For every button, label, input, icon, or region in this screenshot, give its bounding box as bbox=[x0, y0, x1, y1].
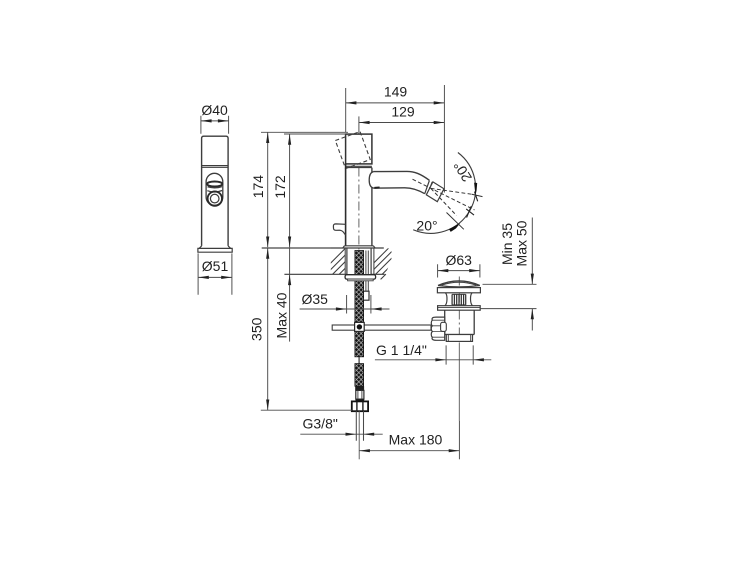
deck hatch right bbox=[362, 248, 415, 274]
drain cap (flat lens) bbox=[438, 281, 480, 286]
tick cross on axis bbox=[466, 206, 474, 217]
deck hole edges bbox=[345, 248, 374, 274]
deck bottom line bbox=[284, 273, 384, 275]
arc arrowhead upper bbox=[474, 183, 477, 195]
lever (dashed, rotated 20 deg) bbox=[335, 132, 370, 169]
ray A solid extension past arc bbox=[472, 194, 483, 196]
spout outline bbox=[369, 171, 429, 193]
extension line center (x=358.9) bbox=[358, 116, 360, 133]
extension line left (lever edge, x=345.7) bbox=[345, 88, 347, 133]
pull rod clip bbox=[362, 291, 369, 300]
drain lower flange bbox=[438, 306, 481, 311]
extension line right (aerator, x=444.4) bbox=[443, 85, 445, 193]
arc arrowhead lower bbox=[449, 223, 460, 232]
handle knob (front view) bbox=[206, 173, 223, 206]
svg-text:G3/8": G3/8" bbox=[303, 415, 338, 431]
dimension O35 bbox=[347, 295, 371, 314]
body seam lines (front view) bbox=[202, 166, 229, 168]
svg-text:Ø63: Ø63 bbox=[445, 252, 472, 268]
dimension 149 bbox=[346, 102, 445, 104]
dimension 129 bbox=[359, 122, 445, 124]
dimension O51 bbox=[198, 253, 232, 294]
dimension 174 bbox=[267, 132, 269, 247]
svg-text:174: 174 bbox=[250, 175, 266, 199]
dimension Min35/Max50 bbox=[531, 218, 533, 331]
svg-text:20°: 20° bbox=[450, 158, 475, 184]
extension: deck top (left) bbox=[262, 247, 331, 249]
base flare (front view) bbox=[199, 246, 231, 249]
lever (solid, side view) bbox=[346, 134, 372, 164]
svg-text:Max 180: Max 180 bbox=[389, 431, 443, 447]
svg-text:Max 40: Max 40 bbox=[274, 292, 290, 338]
knurled adjusting nut bbox=[431, 317, 444, 340]
aerator body bbox=[426, 182, 444, 202]
svg-text:Ø40: Ø40 bbox=[201, 102, 228, 118]
flexible hose braid (upper) bbox=[355, 251, 364, 323]
faucet body (front view) bbox=[202, 136, 229, 246]
G3/8 connection nut bbox=[352, 401, 368, 411]
aerator swivel rays (dashed) bbox=[413, 179, 475, 215]
svg-text:G 1 1/4": G 1 1/4" bbox=[376, 342, 427, 358]
G3/8 pipe bbox=[356, 411, 363, 441]
flexible hose braid (lower) bbox=[355, 364, 364, 387]
spout left end cap bbox=[369, 172, 373, 189]
body edges (side view) bbox=[345, 164, 347, 246]
extension: body top bbox=[284, 133, 346, 135]
dimension O63 bbox=[438, 264, 480, 277]
hose joint node bbox=[355, 322, 365, 331]
centerline continuation below nut bbox=[358, 411, 360, 459]
svg-text:Min 35: Min 35 bbox=[499, 223, 515, 265]
dimension 350 bbox=[267, 248, 269, 410]
deck hatch left bbox=[319, 248, 372, 274]
dimension G 1 1/4 bbox=[446, 345, 473, 364]
drain spool neck with knurl bbox=[445, 293, 473, 306]
solid ray segment through lower arc bbox=[447, 213, 464, 230]
spout base fillet mark bbox=[374, 187, 379, 189]
mounting nut under deck bbox=[345, 275, 376, 279]
dimension 172 bbox=[289, 134, 291, 247]
swivel angle arc bbox=[413, 153, 475, 234]
dimension Max 40 bbox=[289, 247, 291, 341]
svg-text:Max 50: Max 50 bbox=[514, 220, 530, 266]
hose end shank bbox=[356, 390, 364, 399]
svg-text:129: 129 bbox=[391, 103, 415, 119]
washer under nut bbox=[348, 279, 374, 281]
base plate (front view) bbox=[198, 248, 232, 252]
base flare (side view) bbox=[343, 246, 376, 249]
hose break line bbox=[358, 357, 360, 364]
pop-up pull rod (vertical pair) bbox=[366, 251, 368, 292]
drain body bbox=[445, 310, 475, 334]
drain thread G 1 1/4 bbox=[446, 335, 472, 342]
dimension Min35/Max50 extension lines bbox=[480, 284, 537, 308]
centerline (faucet axis x=358.9) bbox=[358, 134, 360, 411]
svg-text:Ø35: Ø35 bbox=[302, 291, 329, 307]
extension: lever top bbox=[261, 131, 348, 133]
spout end seams bbox=[425, 181, 433, 196]
horizontal pop-up rod bbox=[332, 325, 431, 330]
drain top flange bbox=[437, 288, 480, 293]
svg-text:20°: 20° bbox=[416, 218, 437, 234]
pop-up control tab on body bbox=[333, 224, 345, 235]
svg-text:350: 350 bbox=[249, 317, 265, 341]
stray hatch stroke below deck bbox=[381, 274, 386, 279]
svg-text:Ø51: Ø51 bbox=[202, 258, 229, 274]
extension: hose nut level bbox=[261, 409, 352, 411]
tick at upper ray crossing bbox=[475, 192, 478, 202]
threaded shank walls bbox=[347, 248, 371, 275]
deck top line bbox=[262, 247, 384, 249]
hose end ferrule bbox=[355, 386, 364, 390]
lever base seams bbox=[346, 166, 372, 167]
flexible hose braid (middle) bbox=[355, 331, 364, 356]
svg-text:149: 149 bbox=[384, 84, 408, 100]
drain centerline bbox=[458, 277, 460, 343]
dimension O40 bbox=[201, 116, 229, 134]
svg-text:172: 172 bbox=[272, 175, 288, 199]
